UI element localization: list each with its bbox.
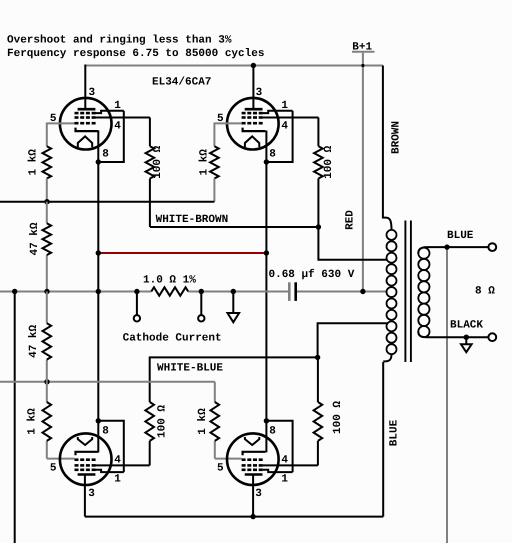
transformer T1 secondary bottom curve bbox=[418, 332, 426, 338]
junction B+ to center tap bbox=[360, 289, 365, 294]
wire red cathode link bbox=[98, 252, 266, 254]
svg-text:3: 3 bbox=[256, 87, 263, 99]
junction V2 cathode bbox=[264, 159, 269, 164]
wire V2 pin4 screen line bbox=[263, 117, 319, 119]
wire feedback line down bbox=[446, 247, 448, 543]
junction red link left bbox=[96, 250, 101, 255]
tube V2 (EL34/6CA7 pentode) bbox=[217, 87, 293, 161]
svg-text:3: 3 bbox=[88, 488, 95, 500]
svg-text:Ferquency response 6.75 to 850: Ferquency response 6.75 to 85000 cycles bbox=[7, 48, 264, 60]
resistor R1 lower lead bbox=[46, 179, 48, 202]
svg-text:1: 1 bbox=[114, 473, 121, 485]
svg-text:BLUE: BLUE bbox=[389, 419, 401, 446]
wire V2 pin5 grid lead bbox=[214, 123, 241, 146]
svg-text:100 Ω: 100 Ω bbox=[152, 145, 164, 178]
junction test point 2 bbox=[199, 289, 204, 294]
ground stub bbox=[232, 292, 234, 314]
B+1 underline bbox=[352, 51, 375, 53]
test point 1 terminal bbox=[134, 315, 140, 321]
svg-text:8 Ω: 8 Ω bbox=[475, 286, 495, 298]
svg-text:1: 1 bbox=[114, 100, 121, 112]
wire BLUE primary lead vertical bbox=[382, 362, 384, 517]
wire WHITE-BROWN screen rail bbox=[150, 226, 319, 228]
junction V1 cathode bbox=[96, 159, 101, 164]
resistor R1 1 kohm bbox=[43, 146, 52, 178]
transformer T1 secondary winding bbox=[418, 248, 429, 259]
wire V4 plate lead bbox=[252, 474, 254, 517]
wire V2 pin1 down to cathode node bbox=[266, 111, 292, 162]
resistor R9 100 ohm bbox=[145, 402, 154, 441]
svg-text:8: 8 bbox=[269, 149, 276, 161]
wire tube V2 plate lead bbox=[252, 65, 254, 111]
resistor R8 1 kohm leads bbox=[46, 382, 48, 402]
svg-text:4: 4 bbox=[281, 454, 288, 466]
resistor R5 47 kohm bbox=[43, 223, 52, 255]
wire V3 plate lead bbox=[84, 474, 86, 517]
resistor R3 100 ohm bbox=[146, 146, 155, 178]
svg-text:3: 3 bbox=[255, 488, 262, 500]
svg-text:47 kΩ: 47 kΩ bbox=[28, 325, 40, 358]
wire V4 pin5 grid lead bbox=[215, 458, 242, 460]
junction V4 cathode bbox=[264, 418, 269, 423]
tube V1 (EL34/6CA7 pentode) bbox=[50, 87, 124, 161]
wire BLACK output line bbox=[427, 336, 489, 338]
svg-text:4: 4 bbox=[114, 454, 121, 466]
crossing dot at B+ wire bbox=[361, 64, 364, 67]
resistor R10 100 ohm bbox=[314, 402, 323, 441]
junction tube V2 plate bbox=[251, 63, 256, 68]
svg-text:4: 4 bbox=[114, 120, 121, 132]
resistor R7 47 kohm bbox=[43, 323, 52, 359]
resistor R2 1 kohm bbox=[210, 146, 219, 178]
wire V1 pin4 screen line bbox=[96, 117, 150, 119]
svg-text:1.0 Ω 1%: 1.0 Ω 1% bbox=[143, 274, 196, 286]
svg-text:1: 1 bbox=[281, 100, 288, 112]
wire screen rail to transformer tap bottom bbox=[318, 323, 388, 357]
terminal BLACK output bbox=[488, 333, 496, 341]
junction 47k bottom bbox=[44, 289, 49, 294]
svg-text:BLUE: BLUE bbox=[447, 230, 474, 242]
transformer T1 primary winding bbox=[387, 230, 397, 240]
resistor R10 100 ohm leads bbox=[317, 357, 319, 402]
wire tube V1 plate lead bbox=[84, 65, 86, 111]
wire V4 pin1 up to cathode node bbox=[266, 421, 292, 472]
wire V3 pin1 up to cathode node bbox=[98, 421, 124, 472]
ground stub BLACK bbox=[465, 337, 467, 344]
junction red link right bbox=[264, 250, 269, 255]
wire cathode current rail mid bbox=[188, 291, 288, 293]
wire B+1 vertical (RED) to center tap bbox=[362, 53, 364, 292]
junction feedback stub bbox=[12, 289, 17, 294]
junction feedback takeoff bbox=[444, 244, 449, 249]
ground symbol mid bbox=[228, 313, 240, 322]
junction screen rail bottom bbox=[315, 355, 320, 360]
svg-text:BROWN: BROWN bbox=[391, 121, 403, 154]
svg-text:100 Ω: 100 Ω bbox=[157, 405, 169, 438]
wire V3 pin4 screen line bbox=[96, 464, 150, 466]
svg-text:5: 5 bbox=[217, 462, 224, 474]
junction left cathode bus bbox=[96, 289, 101, 294]
transformer T1 secondary top curve bbox=[418, 247, 426, 253]
svg-text:1 kΩ: 1 kΩ bbox=[27, 408, 39, 435]
junction ground stub bbox=[231, 289, 236, 294]
resistor R4 100 ohm leads bbox=[317, 118, 319, 147]
wire right cathode bus vertical bbox=[265, 131, 267, 453]
wire V3 pin5 grid lead bbox=[47, 458, 75, 460]
junction grid line / R7 bbox=[44, 379, 49, 384]
transformer T1 core bbox=[404, 221, 406, 363]
wire cathode current rail right of capacitor bbox=[297, 291, 388, 293]
wire top grid input line bbox=[0, 201, 214, 203]
svg-text:WHITE-BROWN: WHITE-BROWN bbox=[156, 214, 229, 226]
svg-text:100 Ω: 100 Ω bbox=[332, 401, 344, 434]
svg-text:47 kΩ: 47 kΩ bbox=[29, 222, 41, 255]
junction BLACK ground bbox=[464, 335, 469, 340]
junction V3 cathode bbox=[96, 418, 101, 423]
wire V4 pin4 screen line bbox=[263, 464, 318, 466]
wire BLUE output line bbox=[427, 246, 489, 248]
svg-text:0.68 μf 630 V: 0.68 μf 630 V bbox=[269, 268, 355, 281]
svg-text:8: 8 bbox=[269, 425, 276, 437]
junction screen rail to tap bbox=[316, 224, 321, 229]
resistor R4 100 ohm bbox=[314, 146, 323, 178]
svg-text:100 Ω: 100 Ω bbox=[323, 145, 335, 178]
resistor R11 1 kohm leads bbox=[214, 382, 216, 402]
svg-text:1 kΩ: 1 kΩ bbox=[199, 149, 211, 176]
transformer T1 primary top curve bbox=[383, 218, 392, 230]
ground symbol BLACK bbox=[461, 344, 472, 352]
resistor R3 100 ohm leads bbox=[149, 118, 151, 147]
capacitor C1 0.68uf right plate bbox=[294, 282, 297, 301]
svg-text:RED: RED bbox=[344, 210, 356, 230]
terminal BLUE output bbox=[488, 243, 496, 251]
test point 1 lead bbox=[136, 292, 138, 316]
wire V1 pin5 grid lead bbox=[47, 123, 75, 146]
wire bottom plate line bbox=[85, 516, 383, 518]
svg-text:3: 3 bbox=[89, 87, 96, 99]
resistor R9 lower lead bbox=[149, 441, 151, 466]
wire cathode current rail left bbox=[0, 291, 151, 293]
wire bottom grid input line bbox=[0, 381, 215, 383]
wire top plate line bbox=[85, 65, 383, 67]
junction test point 1 bbox=[134, 289, 139, 294]
resistor R5 47 kohm leads bbox=[46, 202, 48, 224]
tube V4 (EL34/6CA7 pentode) bbox=[217, 425, 293, 500]
resistor R2 lower lead bbox=[213, 179, 215, 202]
resistor R6 1.0 ohm 1% bbox=[151, 287, 188, 295]
wire BROWN primary lead vertical bbox=[382, 66, 384, 219]
test point 2 terminal bbox=[198, 315, 204, 321]
svg-text:Overshoot and ringing less tha: Overshoot and ringing less than 3% bbox=[7, 35, 232, 47]
svg-text:WHITE-BLUE: WHITE-BLUE bbox=[157, 362, 223, 374]
svg-text:1 kΩ: 1 kΩ bbox=[197, 408, 209, 435]
resistor R7 47 kohm leads bbox=[46, 292, 48, 324]
tube V3 (EL34/6CA7 pentode) bbox=[50, 425, 124, 500]
wire V1 pin1 down to cathode node bbox=[98, 111, 124, 162]
transformer T1 primary bottom curve bbox=[383, 354, 391, 361]
wire left cathode bus vertical bbox=[97, 131, 99, 453]
svg-text:1 kΩ: 1 kΩ bbox=[28, 149, 40, 176]
junction V4 plate bbox=[250, 514, 255, 519]
wire feedback stub down bbox=[14, 292, 16, 543]
svg-text:8: 8 bbox=[102, 149, 109, 161]
wire WHITE-BLUE screen rail bbox=[150, 357, 318, 402]
wire screen rail to transformer tap bbox=[318, 227, 387, 260]
svg-text:1: 1 bbox=[281, 473, 288, 485]
resistor R8 1 kohm bbox=[43, 402, 52, 441]
svg-text:5: 5 bbox=[50, 462, 57, 474]
svg-text:EL34/6CA7: EL34/6CA7 bbox=[152, 77, 211, 89]
svg-text:BLACK: BLACK bbox=[450, 319, 483, 331]
svg-text:Cathode Current: Cathode Current bbox=[123, 333, 222, 345]
resistor R11 1 kohm bbox=[211, 402, 220, 441]
svg-text:8: 8 bbox=[102, 425, 109, 437]
test point 2 lead bbox=[200, 292, 202, 316]
svg-text:4: 4 bbox=[281, 120, 288, 132]
junction grid line / R5 bbox=[44, 199, 49, 204]
capacitor C1 0.68uf left plate bbox=[288, 282, 291, 301]
